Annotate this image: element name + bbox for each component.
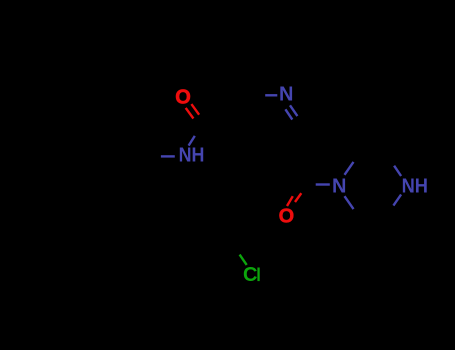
bond C-Cl (chlorine half, stub up-left of Cl): [240, 255, 247, 265]
bond N4'-C3' (nitrogen half, stub up-right): [345, 162, 354, 175]
bond C(=O)-N4' (nitrogen half, horizontal stub left of piperazine N): [316, 183, 330, 185]
svg-text:NH: NH: [402, 175, 428, 197]
bond C=O left amide, stroke 2 (oxygen half): [191, 104, 199, 115]
bond C6-N1 (nitrogen half, horizontal stub left of N): [265, 94, 277, 96]
bond N-CH2 (nitrogen half, horizontal stub left of NH): [161, 155, 175, 157]
svg-text:N: N: [332, 176, 346, 198]
bond N1=C2 double, stroke 2 (nitrogen half): [285, 109, 292, 119]
bond N1=C2 double, stroke 1 (nitrogen half): [290, 105, 297, 116]
bond N-C(=O) (nitrogen half, stub up-right of NH): [189, 136, 195, 146]
svg-text:C: C: [243, 264, 257, 286]
svg-text:O: O: [279, 205, 295, 227]
svg-text:NH: NH: [179, 144, 205, 166]
bond N4'-C5' (nitrogen half, stub down-right): [345, 196, 354, 209]
bond C=O left amide, stroke 1 (oxygen half): [186, 108, 194, 119]
svg-text:O: O: [175, 87, 191, 109]
bond C=O right amide, stroke 1 (oxygen half): [287, 196, 293, 206]
bond C=O right amide, stroke 2 (oxygen half): [295, 193, 301, 202]
bond C2'-N1' (nitrogen half, stub up-left of NH): [394, 166, 401, 176]
bond C6'-N1' (nitrogen half, stub down-left of NH): [393, 195, 401, 206]
svg-text:N: N: [279, 84, 293, 106]
